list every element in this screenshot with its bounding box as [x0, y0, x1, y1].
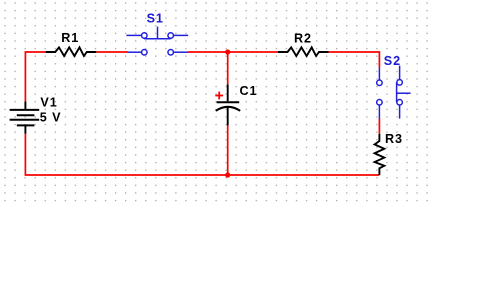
svg-text:C1: C1 [240, 84, 258, 98]
label S2 [384, 54, 401, 68]
svg-text:V1: V1 [40, 95, 57, 109]
svg-text:5 V: 5 V [40, 111, 62, 125]
label S1 [147, 12, 164, 26]
svg-text:R2: R2 [294, 31, 312, 45]
wire S2 to R3 [378, 119, 380, 134]
label 5 V [40, 111, 62, 125]
svg-text:R3: R3 [385, 132, 403, 146]
wire S1 to node A [188, 51, 228, 53]
capacitor C1 plus polarity mark [215, 92, 223, 100]
label V1 [40, 95, 57, 109]
wire R1 to S1 [96, 51, 127, 53]
node A junction [225, 49, 230, 54]
switch S1 [126, 27, 188, 55]
wire bottom left node B to battery [25, 133, 227, 175]
resistor R1 [46, 47, 97, 56]
wire battery top to R1 [25, 52, 45, 102]
capacitor C1 [216, 84, 241, 125]
resistor R3 [375, 134, 385, 175]
label C1 [240, 84, 258, 98]
resistor R2 [278, 47, 329, 56]
label R2 [294, 31, 312, 45]
wire R2 to S2 [329, 52, 380, 68]
svg-text:R1: R1 [61, 31, 79, 45]
label R3 [385, 132, 403, 146]
wire node A to R2 [228, 51, 278, 53]
wire node A to C1 [227, 52, 229, 84]
switch S2 [377, 66, 411, 119]
wire C1 to node B [227, 125, 229, 175]
svg-text:S2: S2 [384, 54, 401, 68]
battery V1 [10, 102, 40, 134]
label R1 [61, 31, 79, 45]
svg-text:S1: S1 [147, 12, 164, 26]
wire bottom right R3 to node B [228, 174, 380, 176]
node B junction [225, 172, 230, 177]
